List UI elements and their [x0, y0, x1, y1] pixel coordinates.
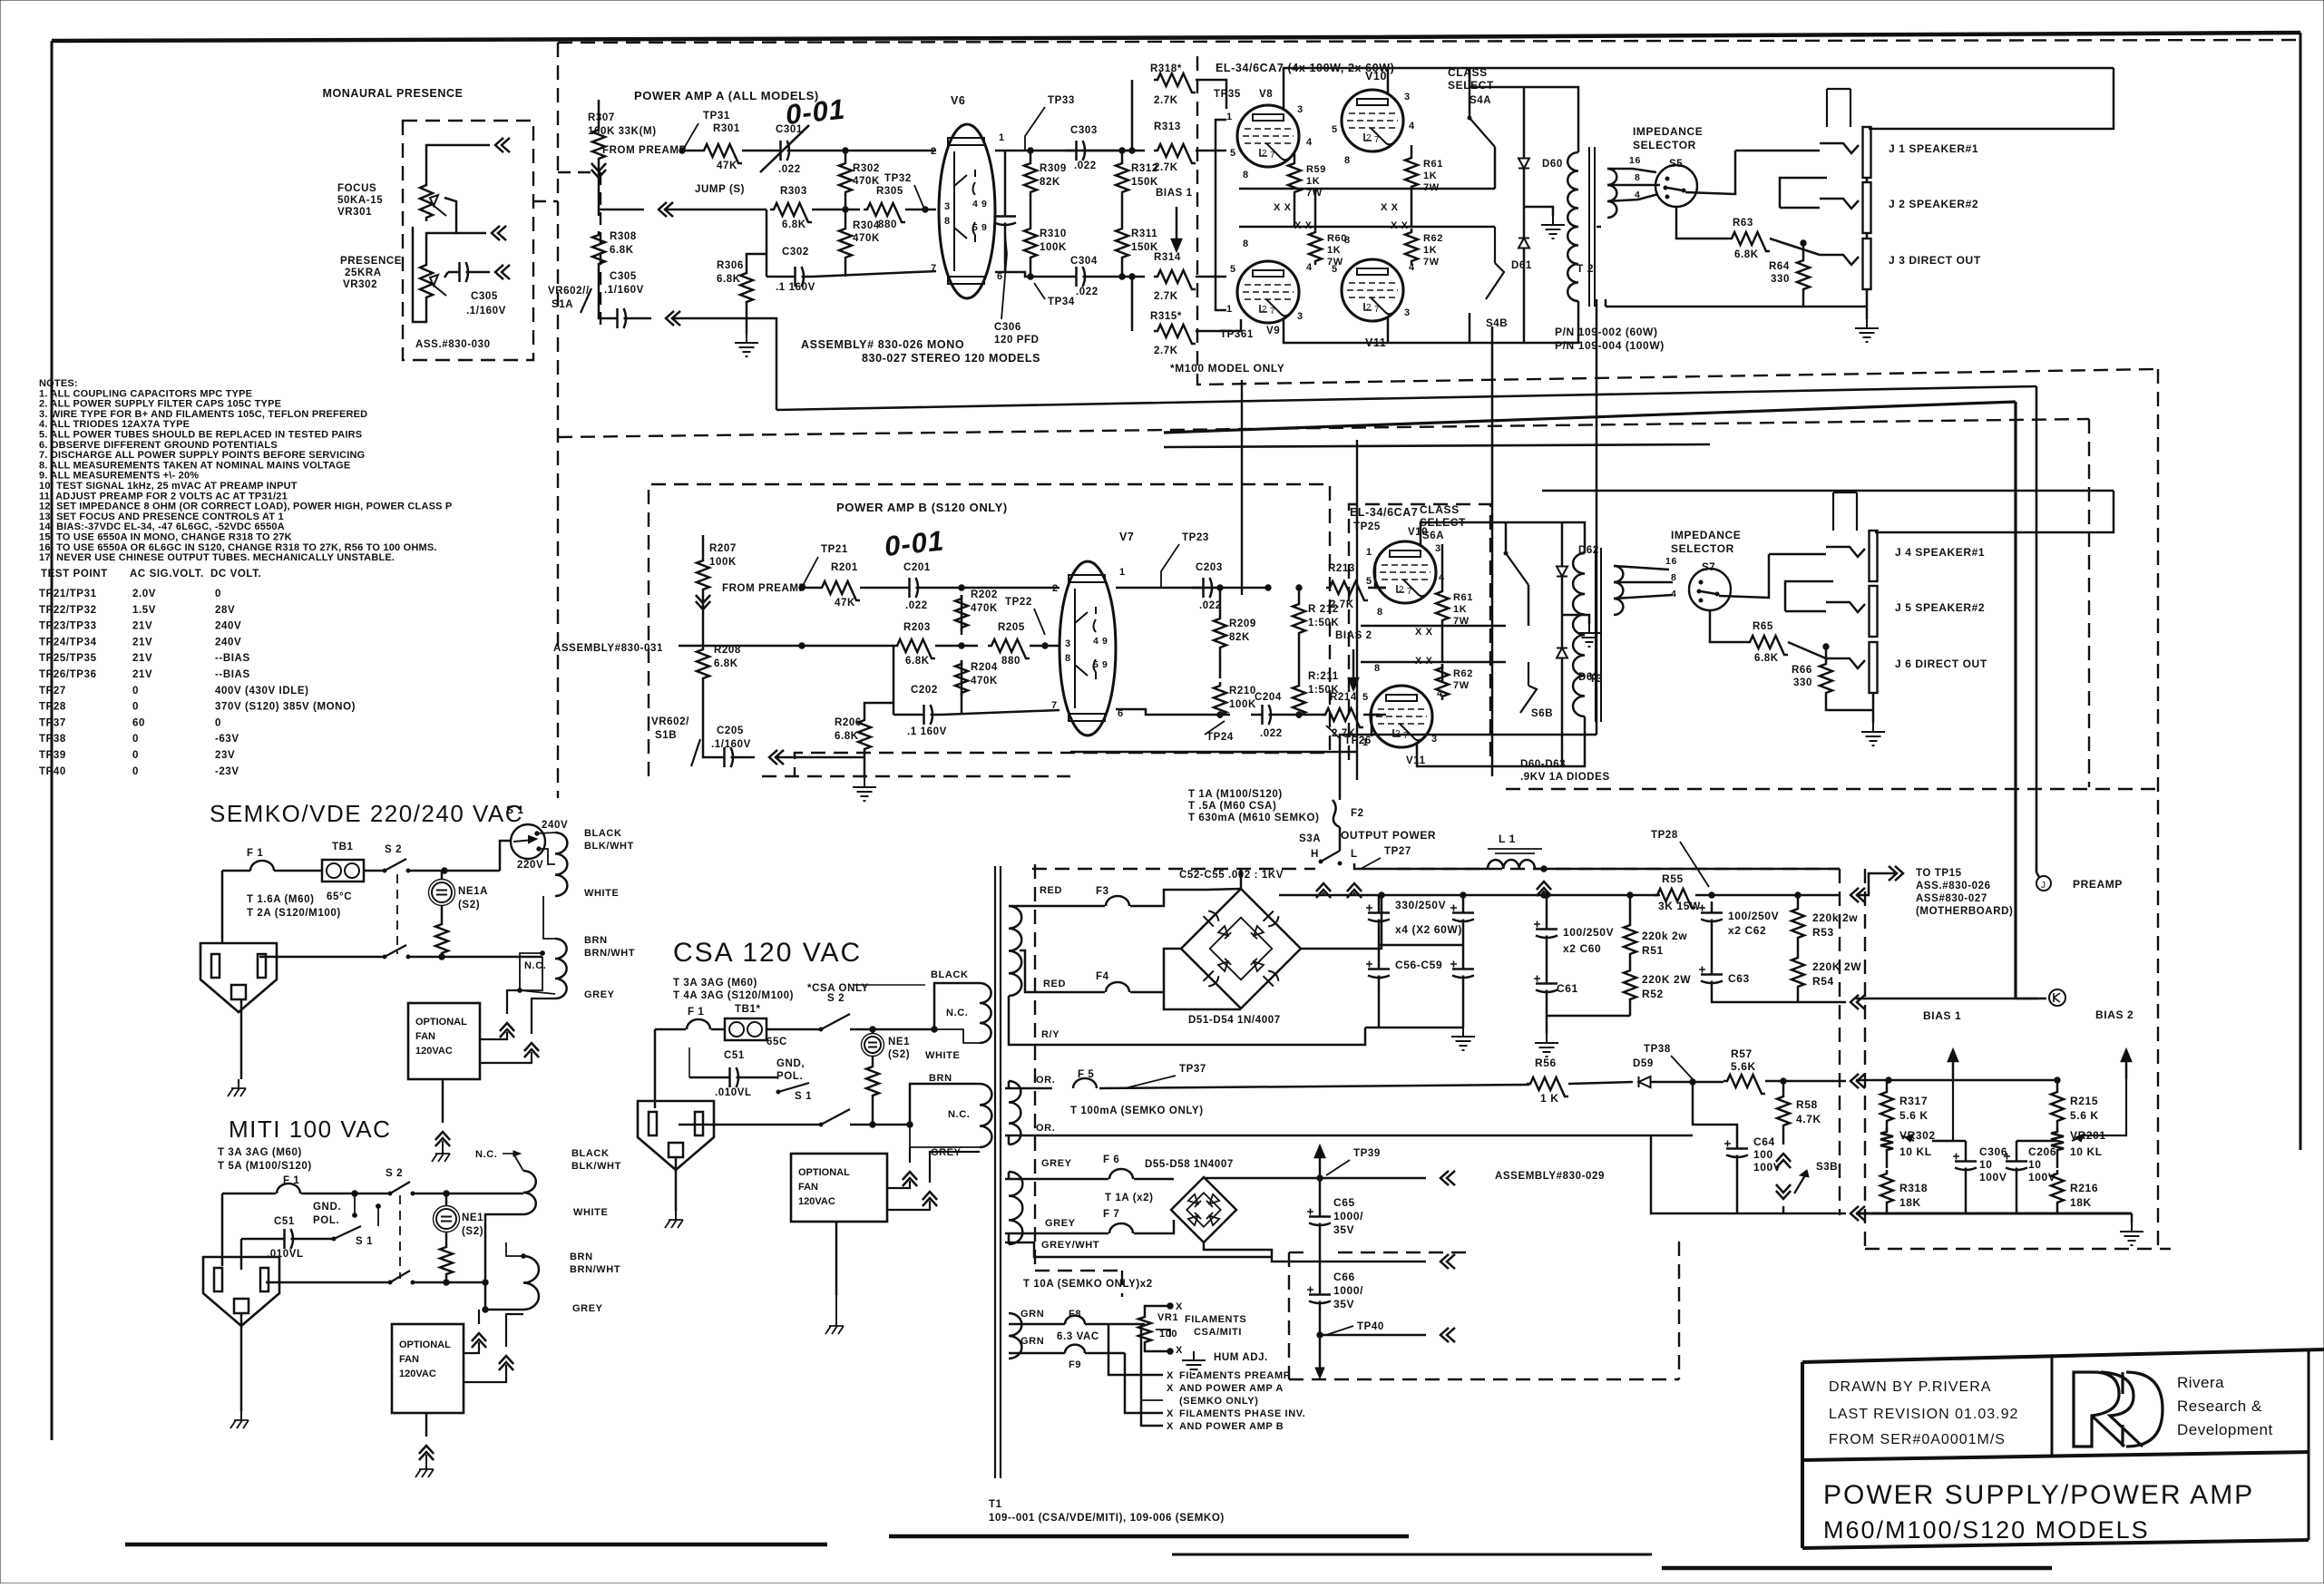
svg-text:R62: R62 — [1453, 668, 1473, 679]
resistor R66 — [1820, 660, 1832, 697]
svg-text:PRESENCE: PRESENCE — [340, 256, 402, 267]
svg-text:VR302: VR302 — [343, 279, 377, 290]
svg-text:1 K: 1 K — [1540, 1092, 1558, 1105]
svg-text:BLACK: BLACK — [571, 1148, 610, 1159]
wire — [1319, 1178, 1322, 1205]
svg-text:R208: R208 — [714, 645, 741, 656]
wire — [445, 1232, 448, 1243]
wire — [1363, 714, 1379, 716]
svg-text:R306: R306 — [717, 260, 744, 271]
svg-text:880: 880 — [878, 219, 897, 230]
wire — [1676, 207, 1728, 239]
resistor R215 — [2051, 1088, 2064, 1125]
svg-text:OPTIONAL: OPTIONAL — [415, 1017, 467, 1028]
wire csa xfmr — [934, 983, 980, 1029]
connector chevron — [769, 750, 784, 765]
svg-text:TP31: TP31 — [703, 111, 730, 122]
svg-text:7W: 7W — [1453, 680, 1470, 691]
resistor R59 — [1288, 160, 1301, 196]
svg-text:7: 7 — [1403, 731, 1409, 741]
svg-text:TB1*: TB1* — [735, 1004, 761, 1015]
svg-text:R318: R318 — [1899, 1182, 1928, 1194]
wire csa mid — [679, 1124, 821, 1126]
wire — [893, 646, 895, 715]
svg-text:2: 2 — [1366, 303, 1372, 313]
svg-text:5.6 K: 5.6 K — [2070, 1109, 2099, 1122]
wire nc jumper miti — [513, 1154, 523, 1171]
sheet border right — [2300, 33, 2302, 1150]
svg-text:F4: F4 — [1096, 971, 1109, 982]
svg-text:5 9: 5 9 — [972, 222, 987, 233]
svg-text:X X: X X — [1415, 627, 1433, 638]
fuse F2 — [1333, 800, 1340, 827]
capacitor C64 — [1726, 1137, 1748, 1166]
svg-text:J 6 DIRECT OUT: J 6 DIRECT OUT — [1895, 658, 1987, 670]
wire — [1546, 895, 1548, 918]
resistor R65 — [1746, 636, 1788, 655]
wire OR2 line — [1005, 1135, 1651, 1137]
svg-text:AC SIG.VOLT.: AC SIG.VOLT. — [130, 569, 204, 580]
resistor R56 — [1527, 1077, 1568, 1096]
svg-text:7: 7 — [1374, 135, 1380, 145]
svg-text:D61: D61 — [1511, 260, 1532, 271]
wire — [910, 1084, 980, 1125]
svg-text:J 4 SPEAKER#1: J 4 SPEAKER#1 — [1895, 546, 1985, 559]
wire — [1320, 1177, 1426, 1180]
svg-text:S1B: S1B — [655, 730, 677, 741]
svg-text:ASSEMBLY# 830-026 MONO: ASSEMBLY# 830-026 MONO — [801, 338, 964, 351]
transformer T3 primary — [1573, 553, 1585, 716]
svg-text:OR.: OR. — [1036, 1123, 1055, 1134]
wire mid line — [1272, 1257, 1426, 1262]
svg-text:3: 3 — [1404, 307, 1411, 318]
wire — [1886, 1080, 1889, 1088]
svg-text:ASSEMBLY#830-031: ASSEMBLY#830-031 — [553, 643, 663, 654]
jack J5 — [1870, 586, 1878, 637]
svg-text:R304: R304 — [853, 220, 880, 231]
wire — [1339, 827, 1342, 851]
svg-text:R213: R213 — [1328, 563, 1355, 574]
svg-text:6.8K: 6.8K — [610, 245, 634, 256]
svg-text:C202: C202 — [911, 685, 938, 696]
svg-text:C56-C59: C56-C59 — [1395, 959, 1442, 971]
svg-text:GREY: GREY — [1041, 1158, 1072, 1169]
svg-text:J 1 SPEAKER#1: J 1 SPEAKER#1 — [1889, 142, 1978, 155]
capacitor C302 — [784, 267, 813, 287]
switch S2a miti — [390, 1182, 410, 1193]
stub s1 — [377, 1208, 379, 1226]
svg-text:SELECTOR: SELECTOR — [1671, 542, 1734, 555]
capacitor C304 — [1065, 267, 1094, 287]
wire preamp feed — [2014, 402, 2016, 999]
svg-text:7. DISCHARGE ALL POWER SUPPLY: 7. DISCHARGE ALL POWER SUPPLY POINTS BEF… — [39, 450, 365, 461]
potentiometer VR302 — [420, 261, 433, 301]
svg-text:AND POWER AMP A: AND POWER AMP A — [1179, 1383, 1284, 1394]
switch S4A — [1470, 118, 1495, 147]
svg-text:S 2: S 2 — [385, 844, 402, 855]
transformer T2 primary — [1567, 152, 1578, 301]
wire — [1219, 715, 1222, 718]
svg-text:10 KL: 10 KL — [2070, 1145, 2103, 1158]
sheet border bottom segment 4 — [1662, 1566, 2052, 1571]
neon NE1A — [432, 882, 452, 902]
svg-text:7: 7 — [1051, 700, 1058, 711]
ground — [1855, 319, 1879, 342]
resistor R205 — [988, 639, 1030, 658]
wire — [413, 1281, 485, 1284]
svg-text:C305: C305 — [610, 271, 637, 282]
wire 220V tap — [539, 849, 555, 864]
svg-text:2.7K: 2.7K — [1154, 291, 1178, 302]
wire S3A to L1 — [1354, 863, 1488, 869]
wire — [635, 317, 651, 320]
svg-text:4.7K: 4.7K — [1796, 1113, 1821, 1125]
fuse F3 — [1106, 896, 1129, 906]
svg-text:10: 10 — [2028, 1158, 2042, 1171]
resistor R57 — [1723, 1075, 1765, 1094]
svg-text:2.7K: 2.7K — [1330, 599, 1354, 610]
svg-text:28V: 28V — [215, 605, 235, 616]
ground — [1577, 624, 1601, 647]
svg-text:D59: D59 — [1633, 1058, 1654, 1069]
svg-text:2.0V: 2.0V — [132, 589, 156, 599]
svg-text:TP24/TP34: TP24/TP34 — [39, 637, 97, 648]
resistor R210 — [1214, 682, 1226, 718]
svg-text:BLACK: BLACK — [931, 969, 969, 980]
wire riser white — [485, 1214, 523, 1282]
resistor R64 — [1797, 257, 1810, 293]
resistor R52 — [1624, 967, 1636, 1003]
sheet border left — [51, 41, 54, 1440]
svg-text:IMPEDANCE: IMPEDANCE — [1671, 529, 1741, 541]
resistor R207 — [697, 557, 709, 593]
neon NE1 miti — [436, 1209, 456, 1229]
svg-text:.022: .022 — [1199, 600, 1222, 611]
svg-text:0: 0 — [132, 766, 139, 777]
wire — [872, 1057, 874, 1063]
wire B+ rail — [1279, 894, 1660, 897]
wire — [426, 233, 456, 261]
svg-text:Development: Development — [2177, 1421, 2273, 1438]
wire long run 1 riser — [2036, 386, 2038, 872]
svg-text:ASSEMBLY#830-029: ASSEMBLY#830-029 — [1495, 1171, 1605, 1182]
svg-text:R311: R311 — [1131, 229, 1157, 239]
handwritten slash through C301 — [760, 125, 809, 172]
svg-text:F 1: F 1 — [247, 848, 263, 859]
svg-text:TP28: TP28 — [1651, 830, 1678, 841]
wire — [1693, 1082, 1737, 1137]
wire — [1298, 588, 1301, 600]
svg-text:R62: R62 — [1423, 233, 1443, 244]
chevron to TP15 — [1889, 866, 1903, 881]
svg-text:15. TO USE 6550A IN MONO, CHAN: 15. TO USE 6550A IN MONO, CHANGE R318 TO… — [39, 532, 292, 543]
svg-text:6.8K: 6.8K — [1734, 249, 1759, 260]
resistor R53 — [1792, 905, 1804, 941]
terminal TB1 semko — [322, 860, 364, 882]
wire — [441, 871, 444, 880]
svg-text:82K: 82K — [1229, 632, 1250, 643]
svg-text:--BIAS: --BIAS — [215, 669, 250, 680]
svg-text:FILAMENTS: FILAMENTS — [1185, 1314, 1246, 1325]
svg-text:WHITE: WHITE — [584, 888, 619, 899]
svg-text:BIAS 1: BIAS 1 — [1156, 188, 1193, 199]
node — [843, 207, 848, 212]
wire — [259, 956, 385, 959]
svg-text:WHITE: WHITE — [925, 1050, 960, 1061]
wire — [703, 682, 713, 757]
svg-text:0: 0 — [215, 589, 221, 599]
tp39 arrow — [1315, 1146, 1324, 1178]
bias2 arrow up — [2122, 1050, 2131, 1079]
svg-text:R61: R61 — [1453, 592, 1473, 603]
handwritten 0-01 — [784, 93, 846, 131]
RRD logo — [2074, 1372, 2163, 1447]
svg-text:H: H — [1311, 849, 1319, 860]
wire — [408, 956, 542, 959]
svg-text:T 4A 3AG (S120/M100): T 4A 3AG (S120/M100) — [673, 990, 794, 1001]
svg-text:120VAC: 120VAC — [415, 1046, 453, 1057]
mains plug miti — [203, 1257, 279, 1326]
wire — [1280, 714, 1326, 716]
svg-text:6.3 VAC: 6.3 VAC — [1057, 1331, 1099, 1342]
wire TP37 line — [1005, 1087, 1052, 1090]
svg-text:TP22/TP32: TP22/TP32 — [39, 605, 97, 616]
svg-text:.1/160V: .1/160V — [466, 306, 506, 317]
svg-text:X: X — [1176, 1345, 1183, 1356]
svg-text:R310: R310 — [1040, 229, 1067, 239]
resistor R312 — [1116, 160, 1128, 196]
svg-text:47K: 47K — [717, 161, 737, 171]
svg-text:V9: V9 — [1266, 326, 1280, 336]
capacitor C52 group — [1368, 901, 1390, 930]
svg-text:5.6 K: 5.6 K — [1899, 1109, 1929, 1122]
wire — [1561, 577, 1564, 648]
assembly box ASS#830-030 — [403, 121, 533, 360]
svg-text:S4B: S4B — [1486, 318, 1508, 329]
wire — [1782, 1081, 1785, 1093]
wire risers — [1323, 892, 1325, 895]
svg-text:16. TO USE 6550A OR 6L6GC IN S: 16. TO USE 6550A OR 6L6GC IN S120, CHANG… — [39, 542, 437, 553]
svg-text:R55: R55 — [1662, 872, 1684, 885]
resistor R62 — [1405, 229, 1418, 265]
wire jack bus top — [1869, 68, 2114, 129]
assembly 830-029 dashed top2 — [1397, 868, 1840, 870]
wire screen B — [1361, 625, 1506, 628]
svg-text:470K: 470K — [971, 603, 998, 614]
svg-text:L: L — [1351, 849, 1358, 860]
wire bridge bottom — [1204, 1242, 1272, 1257]
svg-text:100/250V: 100/250V — [1728, 910, 1779, 922]
node — [959, 585, 964, 590]
switch S2b miti — [390, 1271, 410, 1282]
wire — [2131, 1213, 2134, 1223]
svg-text:7: 7 — [1374, 305, 1380, 315]
svg-text:220V: 220V — [517, 860, 543, 871]
wire — [1009, 905, 1105, 908]
svg-text:ASS.#830-030: ASS.#830-030 — [415, 339, 491, 350]
selector S1 semko — [511, 824, 545, 859]
switch S4B — [1494, 227, 1496, 263]
chevron up — [1537, 882, 1551, 896]
svg-text:.1/160V: .1/160V — [711, 739, 751, 750]
ground — [1861, 723, 1885, 745]
wire — [775, 756, 864, 759]
resistor R313 — [1154, 144, 1196, 163]
svg-text:6.8K: 6.8K — [1754, 653, 1779, 664]
node — [799, 585, 805, 590]
wire — [671, 318, 776, 410]
svg-text:FROM PREAMP: FROM PREAMP — [722, 583, 806, 594]
wire — [934, 1029, 980, 1043]
connector chevron — [591, 163, 606, 178]
wire bias rail — [1856, 1079, 2057, 1081]
wire — [266, 1281, 390, 1284]
connector chevron — [1850, 888, 1865, 902]
svg-text:POWER AMP B (S120 ONLY): POWER AMP B (S120 ONLY) — [836, 501, 1008, 514]
wire F2 up — [1340, 735, 1597, 800]
wire plug earth miti — [240, 1313, 243, 1411]
svg-text:C61: C61 — [1557, 982, 1578, 995]
wire — [1629, 1003, 1632, 1016]
svg-text:1: 1 — [1366, 547, 1372, 558]
wire J5 tip — [1785, 610, 1826, 613]
svg-text:FILAMENTS PREAMP: FILAMENTS PREAMP — [1179, 1370, 1291, 1381]
svg-text:47K: 47K — [835, 598, 855, 609]
svg-text:VR1: VR1 — [1157, 1312, 1178, 1323]
wire — [1469, 313, 1471, 343]
ground — [1535, 1034, 1558, 1057]
svg-text:J: J — [2041, 881, 2046, 891]
wire — [1568, 1082, 1633, 1084]
svg-text:TP27: TP27 — [1384, 846, 1411, 857]
resistor R54 — [1792, 954, 1804, 990]
fan box miti — [392, 1324, 464, 1413]
transformer semko primary lower — [555, 939, 567, 999]
wire — [1368, 587, 1386, 589]
svg-text:S3A: S3A — [1299, 833, 1321, 844]
svg-text:3: 3 — [944, 201, 951, 212]
fuse F1 miti — [277, 1184, 300, 1193]
svg-text:C302: C302 — [782, 247, 809, 258]
resistor R61B — [1436, 588, 1449, 624]
svg-text:R307: R307 — [588, 112, 615, 123]
capacitor C306 — [994, 205, 1016, 234]
power tube V10 — [1342, 90, 1403, 151]
svg-text:1000/: 1000/ — [1333, 1210, 1363, 1223]
svg-text:x2 C62: x2 C62 — [1728, 924, 1766, 937]
resistor R55 — [1654, 889, 1695, 908]
svg-text:SELECT: SELECT — [1448, 79, 1494, 92]
wire — [995, 272, 1065, 277]
wire K line — [1856, 998, 2046, 1000]
svg-text:470K: 470K — [971, 676, 998, 687]
transformer semko primary upper — [555, 833, 567, 896]
wire jack ground bus B — [1872, 693, 1875, 723]
circled J preamp — [2036, 876, 2051, 891]
wire brn jumper — [506, 1242, 523, 1256]
connector chevron down — [696, 595, 710, 609]
wire long run 3 — [1164, 444, 1710, 447]
svg-text:50KA-15: 50KA-15 — [337, 195, 383, 206]
svg-text:R210: R210 — [1229, 686, 1256, 697]
fan box semko — [408, 1003, 480, 1079]
resistor VR1 — [1138, 1313, 1151, 1346]
svg-text:P/N 109-004 (100W): P/N 109-004 (100W) — [1555, 339, 1665, 352]
wire secondary taps — [1607, 169, 1656, 172]
svg-text:CSA/MITI: CSA/MITI — [1194, 1327, 1242, 1338]
wire — [1099, 1085, 1529, 1088]
wire 240V tap — [537, 833, 555, 833]
bias 2 arrow — [1349, 649, 1358, 689]
transformer T2 core — [1588, 147, 1590, 307]
svg-text:330: 330 — [1793, 677, 1812, 688]
svg-text:23V: 23V — [215, 750, 235, 761]
svg-text:5: 5 — [1332, 124, 1338, 135]
wire — [702, 535, 705, 557]
svg-text:S 1: S 1 — [795, 1091, 812, 1102]
fuse F1 csa — [687, 1019, 710, 1029]
svg-text:4 9: 4 9 — [972, 199, 987, 209]
svg-text:100K: 100K — [1040, 242, 1067, 253]
svg-text:T 2: T 2 — [1577, 262, 1594, 275]
wire — [995, 150, 1132, 152]
fuse F6 — [1109, 1169, 1133, 1179]
hum ground — [1182, 1351, 1206, 1374]
svg-text:0: 0 — [132, 702, 139, 713]
svg-text:R205: R205 — [998, 622, 1025, 633]
mains plug semko — [200, 943, 277, 1012]
potentiometer VR302 bias — [1880, 1128, 1893, 1154]
svg-text:2: 2 — [1262, 149, 1267, 159]
svg-text:C206: C206 — [2028, 1145, 2056, 1158]
dashed sub box top edge — [558, 171, 601, 173]
wire — [860, 587, 898, 589]
wire — [1005, 1242, 1272, 1257]
resistor R214 — [1322, 708, 1363, 727]
wire — [1196, 80, 1226, 109]
svg-text:8: 8 — [1671, 572, 1676, 583]
resistor R315 — [1154, 325, 1196, 344]
svg-text:9. ALL MEASUREMENTS +\- 20%: 9. ALL MEASUREMENTS +\- 20% — [39, 471, 199, 482]
svg-text:F3: F3 — [1096, 886, 1109, 897]
switch S3A — [1321, 851, 1340, 862]
wire — [664, 209, 767, 211]
svg-text:R56: R56 — [1535, 1057, 1557, 1069]
wire — [1711, 930, 1714, 963]
capacitor C306 bias — [1955, 1150, 1977, 1179]
wire jump B — [679, 645, 893, 648]
wire — [961, 660, 963, 715]
svg-text:3: 3 — [1404, 92, 1411, 102]
svg-text:8. ALL MEASUREMENTS TAKEN AT: 8. ALL MEASUREMENTS TAKEN AT NOMINAL MAI… — [39, 460, 350, 471]
svg-text:220K 2W: 220K 2W — [1642, 973, 1691, 986]
svg-text:8: 8 — [1065, 653, 1071, 664]
chevron fan semko2 — [524, 1043, 539, 1057]
node — [843, 148, 848, 153]
svg-text:R66: R66 — [1792, 665, 1812, 676]
svg-text:S4A: S4A — [1470, 95, 1491, 106]
svg-text:2: 2 — [1399, 585, 1404, 595]
svg-text:R204: R204 — [971, 662, 998, 673]
wire — [1005, 1178, 1108, 1181]
node — [1823, 644, 1829, 649]
wire — [1094, 150, 1145, 152]
wire S5 out — [1685, 151, 1735, 194]
resistor R204 — [955, 660, 968, 697]
svg-text:0: 0 — [215, 717, 221, 728]
svg-text:C304: C304 — [1070, 256, 1098, 267]
svg-text:5: 5 — [1366, 576, 1372, 587]
